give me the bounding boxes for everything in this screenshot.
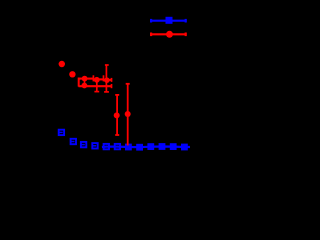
blue square S1 xyxy=(59,130,64,135)
red point P2 xyxy=(69,71,75,77)
legend blue square marker xyxy=(166,17,173,24)
red cluster x-error cap B right xyxy=(111,84,113,88)
red P6 top cap xyxy=(115,94,119,96)
legend red circle marker xyxy=(166,31,173,38)
red cluster left tall cap xyxy=(78,78,80,87)
red cluster x-error line B (lower) xyxy=(79,85,112,87)
blue square S12 xyxy=(181,144,188,151)
red point U2 vertical error bar xyxy=(96,80,98,92)
blue series connecting line (S5-S12 plateau) xyxy=(102,145,190,148)
red P7 error bar tip over S7 xyxy=(127,144,129,146)
blue square S8 xyxy=(136,144,143,151)
red point U1 xyxy=(82,76,88,82)
blue square S4 xyxy=(92,143,97,148)
red point U3 vertical error bar xyxy=(105,65,107,92)
red point P7 vertical error bar xyxy=(127,84,129,146)
red point P1 xyxy=(59,61,65,67)
blue square S5 xyxy=(104,144,109,149)
red point P7 xyxy=(125,111,131,117)
red U1-L1 vertical error xyxy=(84,79,86,86)
red U3 bottom cap xyxy=(104,91,109,93)
blue square S2 xyxy=(71,139,76,144)
red P6 bottom cap xyxy=(115,134,119,136)
red point U2 xyxy=(94,77,100,83)
blue square S10 xyxy=(159,143,166,150)
blue square S9 xyxy=(147,143,154,150)
red point P6 vertical error bar xyxy=(116,95,118,135)
blue square S6 xyxy=(115,144,120,149)
red U3 top cap xyxy=(105,64,109,66)
red point P6 xyxy=(114,112,120,118)
blue square S7 xyxy=(125,144,132,151)
blue square S3 xyxy=(81,142,86,147)
red P7 top cap xyxy=(126,83,130,85)
blue square S11 xyxy=(170,143,177,150)
red point U3 xyxy=(104,77,110,83)
red cluster x-error caps A xyxy=(93,75,111,82)
red cluster x-error line A (upper) xyxy=(79,79,112,80)
legend red errorbar line xyxy=(150,33,186,37)
red point L1 xyxy=(82,83,88,89)
legend blue errorbar line xyxy=(150,19,186,23)
red U2 bottom cap xyxy=(94,91,99,93)
